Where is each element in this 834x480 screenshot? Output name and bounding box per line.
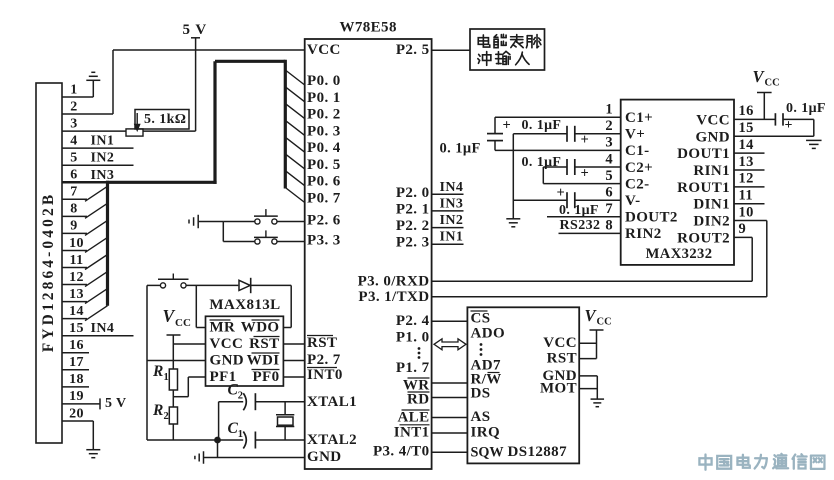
svg-text:12: 12 <box>739 171 754 187</box>
svg-text:+: + <box>503 118 512 134</box>
svg-text:ROUT2: ROUT2 <box>677 230 730 246</box>
svg-text:P0. 1: P0. 1 <box>307 90 341 106</box>
svg-text:4: 4 <box>70 133 77 148</box>
svg-text:DIN2: DIN2 <box>693 214 730 230</box>
svg-text:P0. 3: P0. 3 <box>307 123 341 139</box>
svg-text:2: 2 <box>164 411 169 422</box>
svg-text:17: 17 <box>69 355 84 370</box>
svg-text:P0. 7: P0. 7 <box>307 191 341 207</box>
svg-text:VCC: VCC <box>543 335 577 351</box>
svg-text:P2. 0: P2. 0 <box>396 185 430 201</box>
svg-text:CC: CC <box>597 317 612 328</box>
svg-text:VCC: VCC <box>210 336 244 352</box>
svg-text:RD: RD <box>407 392 429 408</box>
svg-text:MOT: MOT <box>540 381 577 397</box>
svg-text:19: 19 <box>69 389 84 404</box>
svg-text:14: 14 <box>739 137 754 153</box>
svg-text:P2. 3: P2. 3 <box>396 235 430 251</box>
svg-text:P0. 2: P0. 2 <box>307 107 341 123</box>
svg-text:1: 1 <box>605 102 613 118</box>
svg-text:P1. 0: P1. 0 <box>396 329 430 345</box>
svg-text:+: + <box>557 185 566 201</box>
svg-text:IRQ: IRQ <box>471 425 501 441</box>
svg-text:IN4: IN4 <box>440 180 464 195</box>
svg-text:IN1: IN1 <box>440 230 464 245</box>
svg-text:9: 9 <box>739 221 747 237</box>
svg-text:11: 11 <box>739 188 754 204</box>
svg-text:1: 1 <box>70 82 77 97</box>
svg-text:0. 1μF: 0. 1μF <box>440 140 481 156</box>
svg-text:IN2: IN2 <box>440 213 464 228</box>
svg-text:DOUT1: DOUT1 <box>677 146 730 162</box>
svg-text:0. 1μF: 0. 1μF <box>522 118 562 133</box>
svg-text:3: 3 <box>70 116 77 131</box>
svg-text:0. 1μF: 0. 1μF <box>786 101 826 116</box>
svg-text:IN3: IN3 <box>91 168 115 183</box>
svg-text:R: R <box>152 402 163 419</box>
svg-text:10: 10 <box>739 204 754 220</box>
svg-text:P0. 4: P0. 4 <box>307 140 341 156</box>
svg-text:VCC: VCC <box>307 42 341 58</box>
svg-text:C1+: C1+ <box>625 110 653 126</box>
svg-text:INT1: INT1 <box>394 424 430 440</box>
svg-text:P3. 4/T0: P3. 4/T0 <box>373 443 430 459</box>
svg-text:GND: GND <box>307 449 342 465</box>
svg-text:MR: MR <box>210 320 236 336</box>
svg-text:P0. 6: P0. 6 <box>307 174 341 190</box>
svg-text:GND: GND <box>210 353 245 369</box>
svg-text:+: + <box>581 166 590 182</box>
svg-text:CC: CC <box>175 317 191 329</box>
svg-text:IN3: IN3 <box>440 196 464 211</box>
svg-text:4: 4 <box>605 151 613 167</box>
svg-text:CS: CS <box>471 311 491 327</box>
svg-text:6: 6 <box>605 185 613 201</box>
svg-text:FYD12864-0402B: FYD12864-0402B <box>40 192 57 353</box>
svg-text:P0. 0: P0. 0 <box>307 73 341 89</box>
svg-text:PF0: PF0 <box>252 369 279 385</box>
svg-text:P3. 0/RXD: P3. 0/RXD <box>358 273 430 289</box>
svg-text:5. 1kΩ: 5. 1kΩ <box>144 112 186 127</box>
svg-text:XTAL1: XTAL1 <box>307 394 357 410</box>
svg-text:8: 8 <box>70 202 77 217</box>
svg-text:P0. 5: P0. 5 <box>307 157 341 173</box>
svg-text:C2-: C2- <box>625 176 650 192</box>
svg-text:IN4: IN4 <box>91 321 115 336</box>
svg-text:13: 13 <box>739 154 754 170</box>
svg-text:RIN2: RIN2 <box>625 226 662 242</box>
svg-text:C1-: C1- <box>625 143 650 159</box>
svg-text:5: 5 <box>183 22 191 38</box>
svg-text:C2+: C2+ <box>625 160 653 176</box>
svg-text:CC: CC <box>765 78 780 89</box>
svg-text:8: 8 <box>605 218 613 234</box>
svg-text:ROUT1: ROUT1 <box>677 180 730 196</box>
svg-text:2: 2 <box>238 391 243 402</box>
svg-text:V+: V+ <box>625 127 645 143</box>
svg-text:9: 9 <box>70 219 77 234</box>
svg-text:RST: RST <box>249 336 279 352</box>
svg-text:SQW: SQW <box>471 444 504 460</box>
svg-text:5 V: 5 V <box>105 396 127 411</box>
svg-text:P3. 3: P3. 3 <box>307 233 341 249</box>
svg-text:1: 1 <box>238 429 243 440</box>
svg-text:16: 16 <box>739 103 754 119</box>
svg-text:V-: V- <box>625 193 641 209</box>
svg-text:18: 18 <box>69 372 84 387</box>
svg-text:15: 15 <box>739 120 754 136</box>
svg-text:12: 12 <box>69 270 84 285</box>
svg-text:R: R <box>152 363 163 380</box>
svg-text:XTAL2: XTAL2 <box>307 432 357 448</box>
svg-text:5: 5 <box>605 168 613 184</box>
svg-text:MAX3232: MAX3232 <box>646 246 713 262</box>
svg-text:1: 1 <box>164 372 169 383</box>
svg-text:RS232: RS232 <box>560 218 601 233</box>
svg-text:+: + <box>581 132 590 148</box>
svg-text:WDI: WDI <box>247 353 280 369</box>
svg-text:MAX813L: MAX813L <box>209 297 280 313</box>
svg-text:14: 14 <box>69 304 84 319</box>
svg-text:P3. 1/TXD: P3. 1/TXD <box>358 289 429 305</box>
svg-text:VCC: VCC <box>696 112 730 128</box>
svg-text:P2. 2: P2. 2 <box>396 218 430 234</box>
svg-text:P2. 4: P2. 4 <box>396 313 430 329</box>
svg-text:DOUT2: DOUT2 <box>625 210 678 226</box>
svg-text:P2. 1: P2. 1 <box>396 201 430 217</box>
svg-text:IN2: IN2 <box>91 151 115 166</box>
svg-text:0. 1μF: 0. 1μF <box>522 155 562 170</box>
svg-text:DIN1: DIN1 <box>693 197 730 213</box>
svg-text:7: 7 <box>605 201 613 217</box>
svg-text:11: 11 <box>69 253 83 268</box>
svg-text:13: 13 <box>69 287 84 302</box>
svg-text:20: 20 <box>69 406 84 421</box>
svg-text:WDO: WDO <box>241 320 280 336</box>
svg-text:GND: GND <box>695 129 730 145</box>
svg-text:10: 10 <box>69 236 84 251</box>
svg-text:W78E58: W78E58 <box>339 20 396 36</box>
svg-text:V: V <box>195 22 206 38</box>
svg-text:V: V <box>163 306 176 326</box>
svg-text:ALE: ALE <box>397 410 429 426</box>
svg-text:7: 7 <box>70 185 77 200</box>
svg-text:AS: AS <box>471 409 491 425</box>
svg-text:16: 16 <box>69 338 84 353</box>
svg-text:+: + <box>785 118 793 133</box>
svg-text:5: 5 <box>70 151 77 166</box>
svg-text:P2. 5: P2. 5 <box>396 42 430 58</box>
svg-text:RST: RST <box>307 335 337 351</box>
svg-text:INT0: INT0 <box>307 367 343 383</box>
svg-text:3: 3 <box>605 135 613 151</box>
svg-text:ADO: ADO <box>471 326 506 342</box>
svg-text:6: 6 <box>70 168 77 183</box>
svg-text:P2. 6: P2. 6 <box>307 213 341 229</box>
svg-text:DS: DS <box>471 386 491 402</box>
svg-text:DS12887: DS12887 <box>508 444 568 460</box>
svg-text:2: 2 <box>605 118 613 134</box>
svg-text:RST: RST <box>547 351 577 367</box>
svg-text:P1. 7: P1. 7 <box>396 360 430 376</box>
svg-text:15: 15 <box>69 321 84 336</box>
svg-text:P2. 7: P2. 7 <box>307 352 341 368</box>
svg-text:IN1: IN1 <box>91 134 115 149</box>
svg-text:2: 2 <box>70 99 77 114</box>
svg-text:0. 1μF: 0. 1μF <box>559 203 599 218</box>
svg-text:RIN1: RIN1 <box>693 163 730 179</box>
